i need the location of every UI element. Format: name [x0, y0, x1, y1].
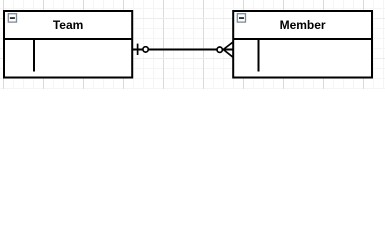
entity Member: collapse icon: [237, 14, 245, 22]
entity Team: title divider: [4, 38, 132, 40]
marker: zero circle near Member end: [217, 47, 222, 52]
entity Team: outer box: [4, 11, 132, 78]
entity Team: collapse icon: [8, 14, 16, 22]
entity Member: outer box: [233, 11, 372, 78]
grid background minor: [0, 0, 385, 89]
marker: mandatory-one tick at Team end: [137, 44, 139, 55]
marker: zero circle near Team end: [143, 47, 148, 52]
grid background major: [0, 0, 385, 89]
entity Member: title divider: [233, 38, 372, 40]
marker: crow's foot (many) at Member end: [223, 42, 233, 57]
wire: relationship line Team-Member: [133, 49, 233, 51]
entity Team: row column divider: [33, 39, 35, 72]
svg-text:Member: Member: [280, 18, 326, 32]
svg-text:Team: Team: [53, 18, 83, 32]
entity Member: row column divider: [258, 39, 260, 72]
